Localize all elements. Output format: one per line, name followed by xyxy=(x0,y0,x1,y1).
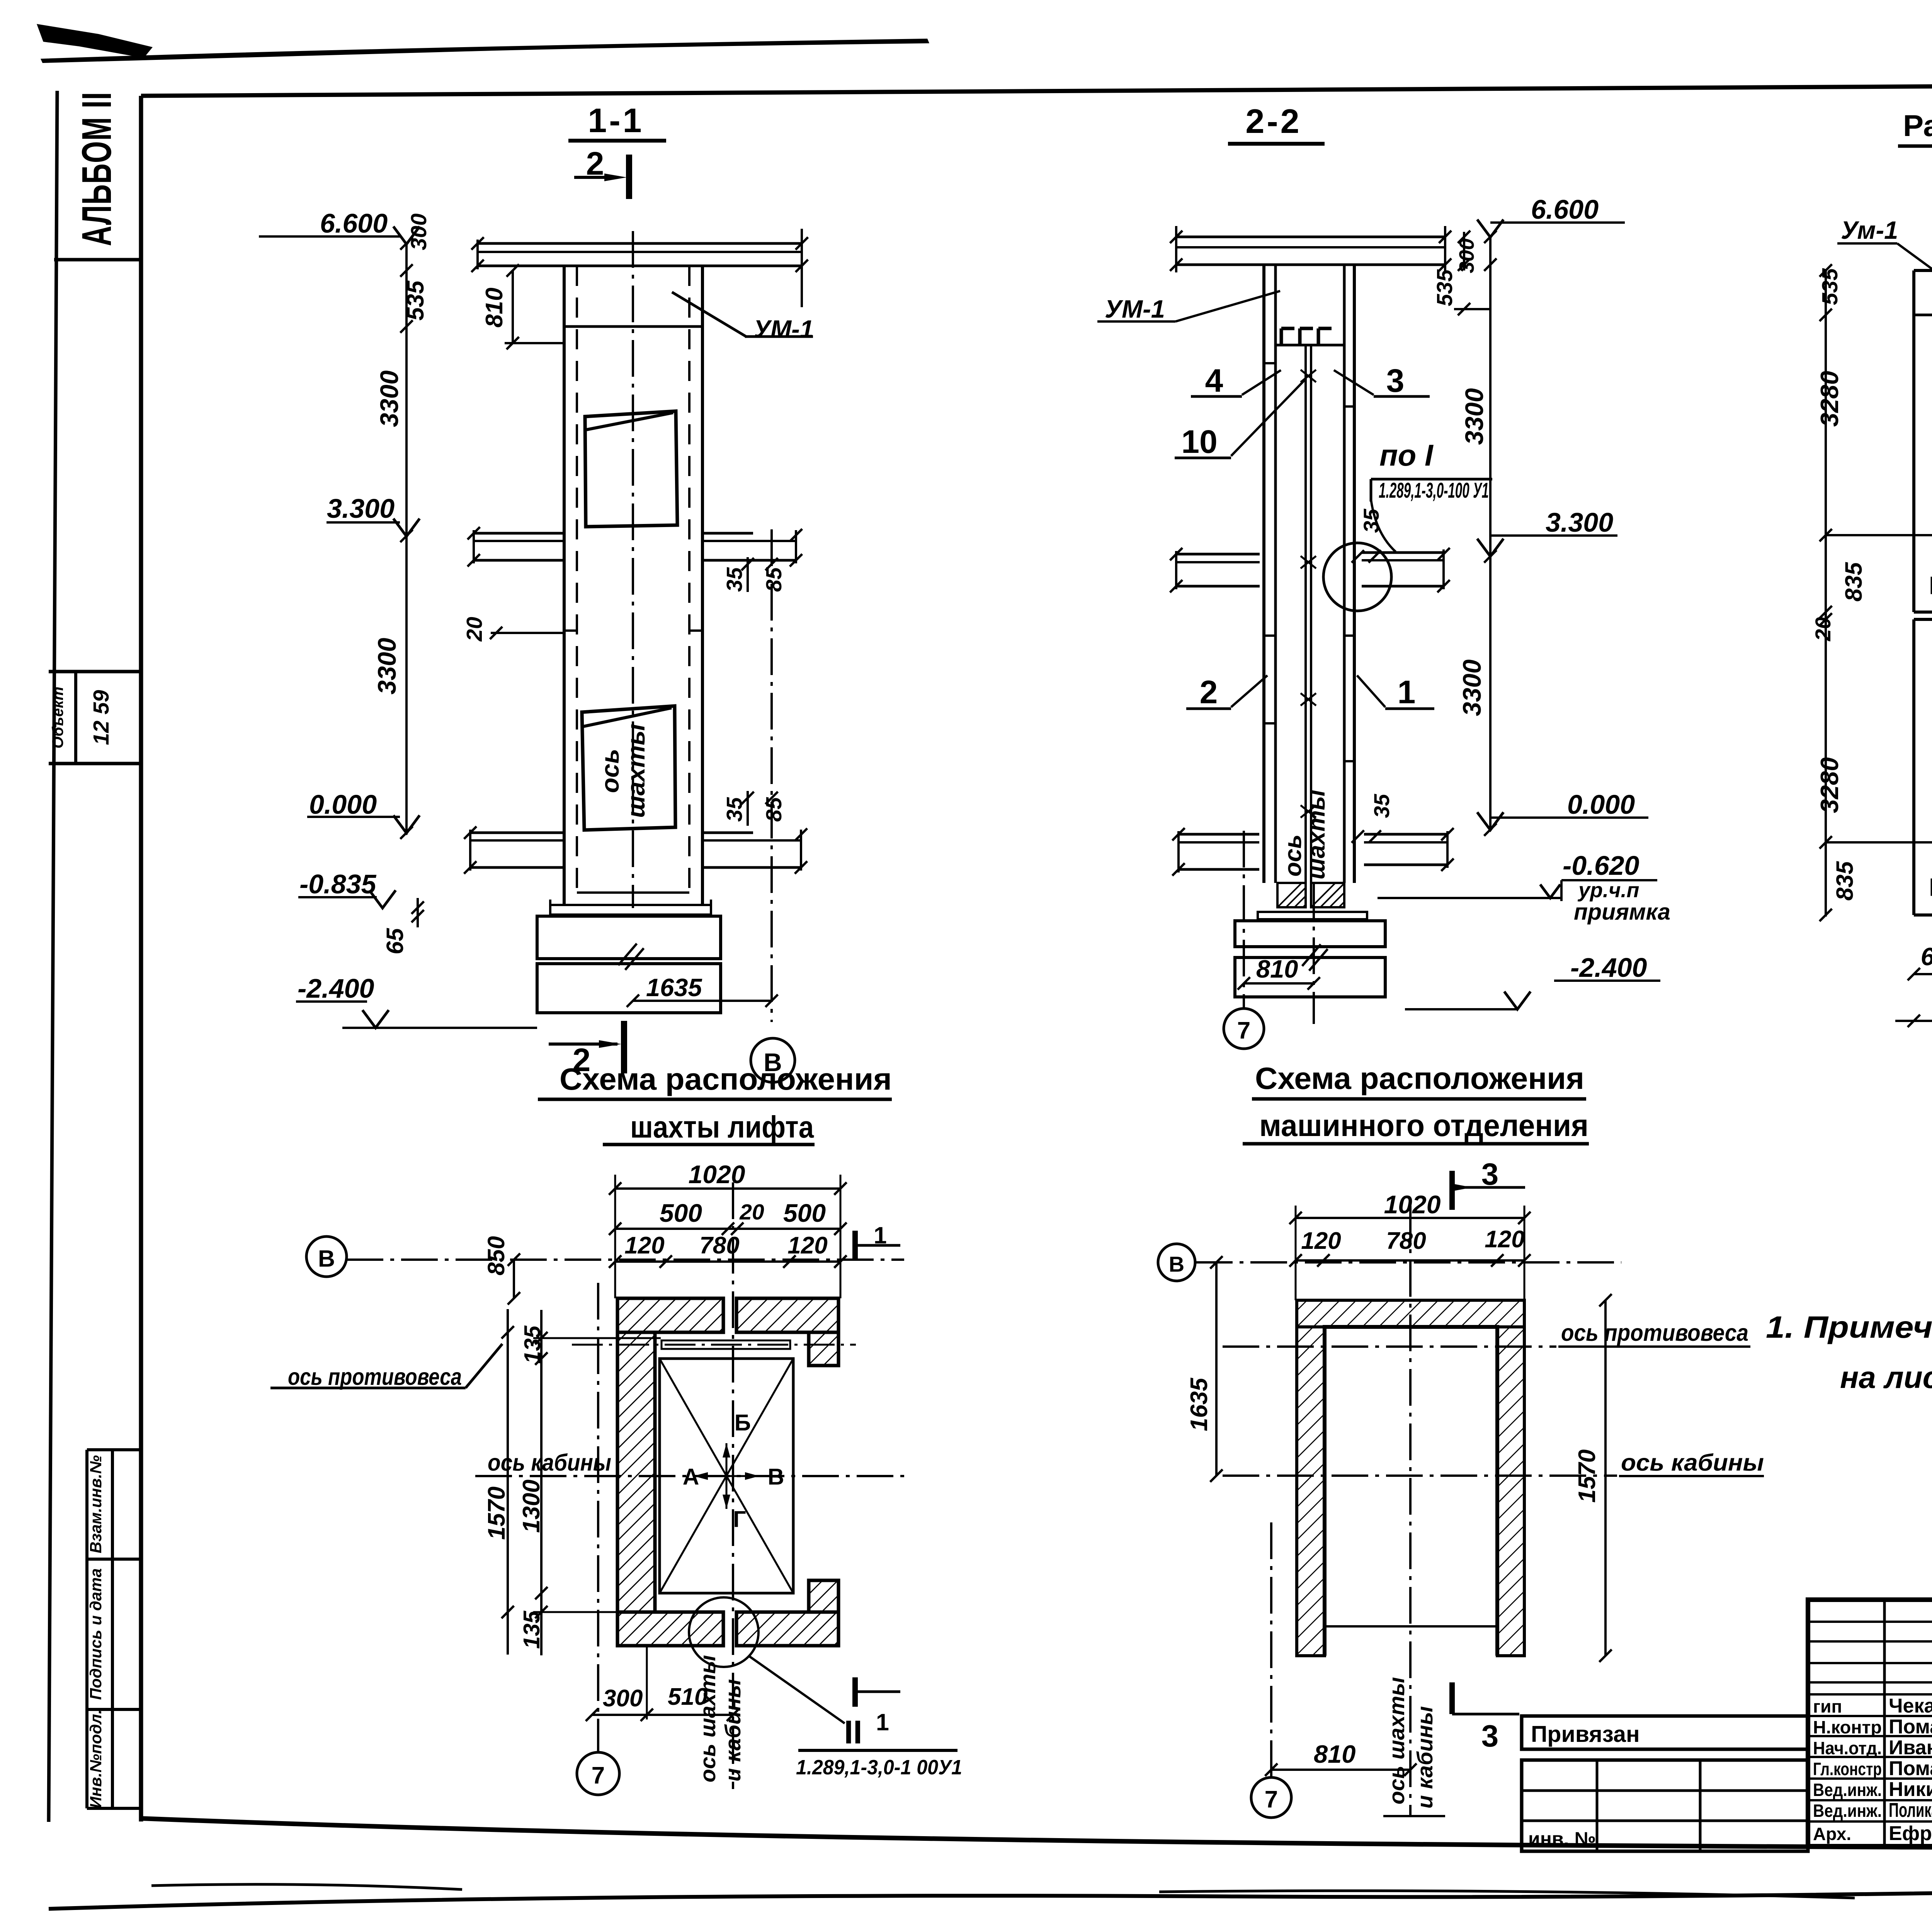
machine plan left wall hatched xyxy=(1297,1327,1325,1656)
svg-text:1635: 1635 xyxy=(1186,1378,1213,1431)
svg-text:ось: ось xyxy=(1280,834,1306,876)
svg-text:3300: 3300 xyxy=(1458,659,1486,716)
section 2-2 right levels chain xyxy=(1489,236,1492,831)
svg-text:35: 35 xyxy=(722,567,747,592)
svg-text:УМ-1: УМ-1 xyxy=(753,315,814,343)
svg-text:Нач.отд.: Нач.отд. xyxy=(1813,1738,1882,1758)
svg-text:810: 810 xyxy=(1256,955,1298,983)
svg-text:Взам.инв.№: Взам.инв.№ xyxy=(87,1455,105,1553)
section 1-1 foundation break mark xyxy=(618,944,637,965)
section 2-2 rail joint crosses xyxy=(1301,370,1316,382)
machine plan axis 7 circle xyxy=(1251,1777,1291,1818)
svg-text:3300: 3300 xyxy=(1460,388,1488,445)
svg-text:-0.835: -0.835 xyxy=(299,869,377,899)
svg-text:2: 2 xyxy=(1200,674,1218,710)
frame left border line xyxy=(139,96,143,1821)
svg-text:6.600: 6.600 xyxy=(320,208,388,238)
svg-text:инв. №: инв. № xyxy=(1528,1828,1596,1850)
svg-text:1-1: 1-1 xyxy=(588,101,644,139)
svg-text:Развертка стен шахты: Развертка стен шахты xyxy=(1903,109,1932,143)
svg-text:и кабины: и кабины xyxy=(1413,1706,1437,1808)
machine plan inner bottom line xyxy=(1325,1625,1497,1628)
lift plan cut mark 1 top xyxy=(852,1231,858,1260)
machine plan top wall hatched xyxy=(1297,1300,1524,1327)
svg-text:Подпись и дата: Подпись и дата xyxy=(87,1568,105,1700)
svg-text:35: 35 xyxy=(722,797,747,822)
svg-text:120: 120 xyxy=(1485,1226,1524,1253)
section 2-2 guide rails xyxy=(1304,345,1307,907)
svg-text:135: 135 xyxy=(520,1325,545,1364)
section 1-1 dim 20 at joint xyxy=(491,632,564,634)
lift plan bottom wall hatched xyxy=(617,1612,723,1646)
section 2-2 floor slabs at 0.000 xyxy=(1179,833,1259,836)
machine plan axis В line xyxy=(1196,1261,1621,1264)
svg-text:Арх.: Арх. xyxy=(1813,1824,1851,1844)
svg-text:Объект: Объект xyxy=(49,687,66,748)
machine plan right wall hatched xyxy=(1497,1327,1524,1656)
svg-text:3: 3 xyxy=(1481,1719,1499,1753)
svg-text:1.289,1-3,0-100 У1: 1.289,1-3,0-100 У1 xyxy=(1379,478,1489,502)
section 1-1 foundation block upper xyxy=(537,916,721,959)
section 1-1 dim 1635 xyxy=(633,1000,772,1002)
section 1-1 dim 810 extension and text xyxy=(512,270,514,344)
svg-text:35: 35 xyxy=(1369,794,1394,818)
svg-text:В: В xyxy=(1169,1252,1184,1276)
svg-text:и кабины: и кабины xyxy=(721,1679,745,1781)
svg-text:ось шахты: ось шахты xyxy=(1384,1677,1409,1804)
section 2-2 foundation break mark xyxy=(1302,944,1321,966)
machine plan axis 7 line xyxy=(1270,1522,1272,1777)
svg-text:-2.400: -2.400 xyxy=(298,973,374,1003)
section 1-1 wall joint at mid height xyxy=(564,629,577,632)
machine plan chain 1635 xyxy=(1215,1262,1218,1476)
svg-text:Никитина: Никитина xyxy=(1889,1778,1932,1801)
svg-text:3.300: 3.300 xyxy=(327,493,395,524)
svg-text:1300: 1300 xyxy=(518,1480,545,1533)
svg-text:Поликарпова: Поликарпова xyxy=(1889,1799,1932,1821)
machine plan inner contour heavy xyxy=(1325,1327,1497,1656)
section 2-2 title underline xyxy=(1228,142,1325,146)
svg-text:3: 3 xyxy=(1386,362,1405,399)
svg-text:535: 535 xyxy=(402,280,429,321)
lift plan cabin centre arrows xyxy=(694,1475,759,1477)
title block Привязан box xyxy=(1522,1716,1808,1749)
svg-text:300: 300 xyxy=(603,1685,643,1712)
section 1-1 dim 65 xyxy=(417,898,419,927)
lift plan top-right jamb xyxy=(809,1332,838,1366)
section 2-2 pit floor hatched right xyxy=(1311,883,1344,907)
svg-text:УМ-1: УМ-1 xyxy=(1105,295,1165,323)
svg-text:Помазов: Помазов xyxy=(1889,1716,1932,1738)
svg-text:Г: Г xyxy=(733,1507,746,1532)
section 1-1 floor slabs at 0.000 xyxy=(470,832,564,834)
svg-text:20: 20 xyxy=(462,617,487,642)
section 2-2 pit floor hatched left xyxy=(1277,883,1306,907)
svg-text:ур.ч.п: ур.ч.п xyxy=(1577,879,1639,902)
svg-text:535: 535 xyxy=(1818,268,1842,305)
machine plan axis кабины line xyxy=(1223,1475,1617,1477)
section 1-1 dim 35 85 at 3.300 xyxy=(747,557,749,592)
lift plan detail circle xyxy=(689,1597,759,1667)
svg-text:на листе КЖ-41: на листе КЖ-41 xyxy=(1840,1360,1932,1395)
machine plan axis противовеса line xyxy=(1223,1345,1556,1348)
section 2-2 dim 810 xyxy=(1244,982,1314,985)
development level line 0.000 xyxy=(1826,841,1932,844)
svg-text:3: 3 xyxy=(1481,1157,1499,1191)
lift plan axis 7 line xyxy=(597,1283,599,1751)
section 2-2 foundation block lower xyxy=(1235,957,1385,997)
development belt lines xyxy=(1914,314,1932,316)
svg-text:120: 120 xyxy=(1301,1228,1341,1254)
svg-text:3300: 3300 xyxy=(372,638,401,694)
svg-text:2-2: 2-2 xyxy=(1245,102,1301,140)
svg-text:ось противовеса: ось противовеса xyxy=(288,1364,462,1390)
section 1-1 label УМ-1 xyxy=(672,292,746,337)
section 2-2 wall joints xyxy=(1264,362,1276,364)
svg-text:В: В xyxy=(318,1245,335,1272)
lift plan chain 1570 xyxy=(507,1309,509,1655)
svg-text:ось шахты: ось шахты xyxy=(696,1655,720,1782)
section 1-1 cut mark 2 bottom xyxy=(621,1021,627,1073)
svg-text:810: 810 xyxy=(1314,1740,1355,1768)
svg-text:приямка: приямка xyxy=(1574,899,1670,925)
svg-text:1. Примечания, разрез 3-3 и мо: 1. Примечания, разрез 3-3 и монолитный у… xyxy=(1766,1310,1932,1344)
section 1-1 axis B circle xyxy=(751,1038,795,1082)
section 2-2 top slab xyxy=(1176,236,1445,238)
svg-text:Н.контр: Н.контр xyxy=(1813,1717,1882,1737)
svg-text:1570: 1570 xyxy=(483,1486,510,1540)
svg-text:20: 20 xyxy=(1811,617,1835,641)
svg-text:машинного отделения: машинного отделения xyxy=(1259,1108,1588,1143)
section 2-2 foundation levelling plate xyxy=(1258,912,1367,919)
svg-text:3280: 3280 xyxy=(1815,371,1844,427)
svg-text:135: 135 xyxy=(519,1611,544,1649)
svg-text:85: 85 xyxy=(762,567,786,592)
lift plan chain 135 1300 135 xyxy=(540,1310,543,1655)
title block signature table rows xyxy=(1808,1621,1932,1623)
section 1-1 lower door opening xyxy=(582,706,675,830)
section 2-2 shaft right wall xyxy=(1343,265,1346,883)
svg-text:835: 835 xyxy=(1840,562,1867,602)
machine plan shaft axis line xyxy=(1409,1206,1412,1816)
svg-text:Схема расположения: Схема расположения xyxy=(1255,1061,1584,1095)
svg-text:1635: 1635 xyxy=(646,973,702,1002)
section 1-1 shaft centre axis xyxy=(632,231,634,908)
svg-text:Чекалов: Чекалов xyxy=(1889,1695,1932,1717)
section 1-1 floor slabs at 3.300 xyxy=(474,532,564,535)
svg-text:Привязан: Привязан xyxy=(1531,1721,1640,1747)
title block signature table verticals xyxy=(1883,1600,1886,1849)
svg-text:300: 300 xyxy=(406,213,431,250)
svg-text:по I: по I xyxy=(1379,438,1434,472)
scan page left edge xyxy=(49,91,57,1822)
svg-text:4: 4 xyxy=(1205,362,1223,399)
lift plan extension lines 135 xyxy=(533,1337,661,1339)
development bottom dim row 1300-780 xyxy=(1895,1020,1932,1022)
svg-text:-2.400: -2.400 xyxy=(1570,952,1647,983)
binding strip bottom boxes xyxy=(87,1448,141,1451)
lift plan dim 300 510 xyxy=(592,1714,733,1716)
svg-text:Вед.инж.: Вед.инж. xyxy=(1813,1780,1882,1800)
section 2-2 foundation block upper xyxy=(1235,921,1385,947)
section 2-2 anchor hooks xyxy=(1281,328,1294,345)
svg-text:7: 7 xyxy=(1265,1786,1278,1813)
lift plan dim 850 xyxy=(513,1260,515,1298)
scan top-left corner tear xyxy=(37,24,153,58)
section 1-1 foundation levelling plate xyxy=(550,905,711,915)
section 1-1 machine room floor line xyxy=(564,325,702,328)
svg-text:85: 85 xyxy=(762,797,786,822)
lift plan left wall hatched xyxy=(617,1298,655,1646)
binding strip Объект box xyxy=(49,670,141,673)
svg-text:1020: 1020 xyxy=(689,1160,745,1189)
svg-text:шахты лифта: шахты лифта xyxy=(630,1110,814,1144)
svg-text:810: 810 xyxy=(481,287,508,327)
section 1-1 upper door opening xyxy=(585,411,677,527)
svg-text:1: 1 xyxy=(1398,674,1416,710)
svg-text:ось: ось xyxy=(596,749,624,793)
svg-text:1: 1 xyxy=(876,1709,889,1735)
svg-text:0.000: 0.000 xyxy=(1567,789,1635,820)
svg-text:650: 650 xyxy=(1921,942,1932,971)
scan page top edge xyxy=(41,39,929,63)
section 1-1 shaft right wall inner dashed line xyxy=(688,266,690,893)
lift plan top wall hatched xyxy=(617,1298,723,1332)
machine plan axis В circle xyxy=(1158,1244,1195,1281)
svg-text:835: 835 xyxy=(1832,861,1858,901)
svg-text:Помазов: Помазов xyxy=(1889,1757,1932,1780)
section 2-2 axis 7 circle xyxy=(1224,1009,1264,1049)
section 2-2 floor slabs at 3.300 xyxy=(1176,553,1260,556)
section 1-1 top slab at 6.600 xyxy=(478,242,802,245)
development left chain xyxy=(1825,269,1827,917)
lift plan axis кабины line xyxy=(475,1475,906,1477)
lift plan cabin diagonals xyxy=(660,1359,793,1593)
svg-text:II: II xyxy=(844,1714,862,1751)
section 2-2 shaft left wall xyxy=(1262,265,1265,883)
svg-text:Гл.констр: Гл.констр xyxy=(1813,1759,1882,1779)
development tier1 outer contour xyxy=(1914,269,1932,272)
svg-text:535: 535 xyxy=(1432,269,1457,306)
binding strip АЛЬБОМ II box bottom line xyxy=(54,258,141,262)
scan page bottom edge second line xyxy=(151,1884,462,1889)
svg-text:гип: гип xyxy=(1813,1696,1842,1716)
svg-text:0.000: 0.000 xyxy=(309,789,377,820)
frame top border line xyxy=(141,83,1932,96)
svg-text:20: 20 xyxy=(739,1200,764,1225)
lift plan cabin outline xyxy=(660,1359,793,1593)
svg-text:Иванов: Иванов xyxy=(1889,1736,1932,1759)
lift plan axis В circle xyxy=(306,1236,347,1277)
scan page bottom edge xyxy=(49,1876,1932,1909)
svg-text:ось противовеса: ось противовеса xyxy=(1561,1320,1748,1346)
development tier2 contour xyxy=(1914,618,1932,621)
svg-text:300: 300 xyxy=(1455,238,1478,273)
svg-text:-0.620: -0.620 xyxy=(1563,850,1639,881)
svg-text:шахты: шахты xyxy=(622,724,650,818)
lift plan axis В line xyxy=(347,1259,904,1261)
svg-text:Схема расположения: Схема расположения xyxy=(560,1062,892,1096)
machine plan cut mark 3 top xyxy=(1449,1171,1455,1210)
svg-text:шахты: шахты xyxy=(1303,790,1330,879)
svg-text:120: 120 xyxy=(624,1232,664,1259)
title block left small table xyxy=(1522,1760,1808,1851)
frame bottom border line xyxy=(141,1818,1932,1848)
svg-text:Ум-1: Ум-1 xyxy=(1841,216,1898,244)
svg-text:500: 500 xyxy=(783,1199,826,1227)
svg-text:1: 1 xyxy=(874,1222,887,1248)
svg-text:500: 500 xyxy=(660,1199,702,1227)
title block outer box xyxy=(1808,1600,1932,1846)
svg-text:120: 120 xyxy=(787,1232,827,1259)
svg-text:Инв.№подл.: Инв.№подл. xyxy=(87,1709,105,1808)
section 2-2 shaft axis line xyxy=(1313,883,1315,1024)
machine plan cut mark 3 bottom xyxy=(1449,1682,1455,1714)
section 1-1 shaft right wall outer line xyxy=(701,266,704,905)
svg-text:65: 65 xyxy=(382,928,408,954)
svg-text:АЛЬБОМ II: АЛЬБОМ II xyxy=(73,92,120,246)
lift plan bottom-right jamb xyxy=(809,1580,838,1612)
section 2-2 detail circle xyxy=(1323,543,1391,611)
svg-text:1.289,1-3,0-1 00У1: 1.289,1-3,0-1 00У1 xyxy=(796,1756,962,1779)
svg-text:850: 850 xyxy=(483,1236,509,1276)
lift plan cut mark 1 bottom xyxy=(852,1677,858,1707)
machine plan dim 810 xyxy=(1271,1769,1410,1771)
scan page bottom edge third line xyxy=(1159,1891,1855,1898)
section 2-2 machine floor line xyxy=(1276,344,1344,347)
svg-text:7: 7 xyxy=(1237,1017,1250,1044)
machine plan chain 1570 xyxy=(1604,1300,1607,1656)
svg-text:3.300: 3.300 xyxy=(1546,507,1613,537)
svg-text:Ефремов: Ефремов xyxy=(1889,1822,1932,1845)
svg-text:3300: 3300 xyxy=(375,370,403,427)
lift plan axis противовеса line xyxy=(572,1344,856,1346)
svg-text:7: 7 xyxy=(592,1762,605,1789)
section 1-1 shaft left wall inner dashed line xyxy=(576,266,578,893)
section 1-1 title underline xyxy=(568,139,666,143)
section 2-2 ref 1.289.1-3.0-100 У1 xyxy=(1371,478,1492,481)
lift plan axis 7 circle xyxy=(577,1752,619,1795)
svg-text:1570: 1570 xyxy=(1574,1449,1600,1503)
svg-text:Вед.инж.: Вед.инж. xyxy=(1813,1801,1882,1821)
svg-text:Б: Б xyxy=(735,1410,751,1435)
svg-text:780: 780 xyxy=(1386,1228,1426,1254)
svg-text:ось кабины: ось кабины xyxy=(1621,1449,1764,1476)
svg-text:6.600: 6.600 xyxy=(1531,194,1599,224)
section 2-2 dim 300 ticks xyxy=(1463,232,1465,270)
section 1-1 axis B line xyxy=(770,529,773,1022)
section 1-1 dim 35 85 at 0.000 xyxy=(747,791,749,826)
svg-text:10: 10 xyxy=(1181,423,1217,460)
section 2-2 axis 7 line xyxy=(1243,831,1245,1009)
section 1-1 shaft left wall outer line xyxy=(563,266,566,905)
lift plan shaft axis line xyxy=(732,1182,734,1789)
development bottom dim row 650-390 xyxy=(1914,973,1932,975)
svg-text:12 59: 12 59 xyxy=(89,690,114,745)
development level line 3.300 xyxy=(1826,534,1932,536)
svg-text:3280: 3280 xyxy=(1815,757,1844,813)
section 1-1 foundation block lower xyxy=(537,964,721,1013)
section 1-1 left levels chain line xyxy=(405,242,408,835)
section 1-1 pit interior bottom line xyxy=(577,891,689,894)
lift plan counterweight slot xyxy=(662,1340,790,1349)
svg-text:1020: 1020 xyxy=(1384,1190,1441,1219)
svg-text:ось кабины: ось кабины xyxy=(488,1449,611,1476)
